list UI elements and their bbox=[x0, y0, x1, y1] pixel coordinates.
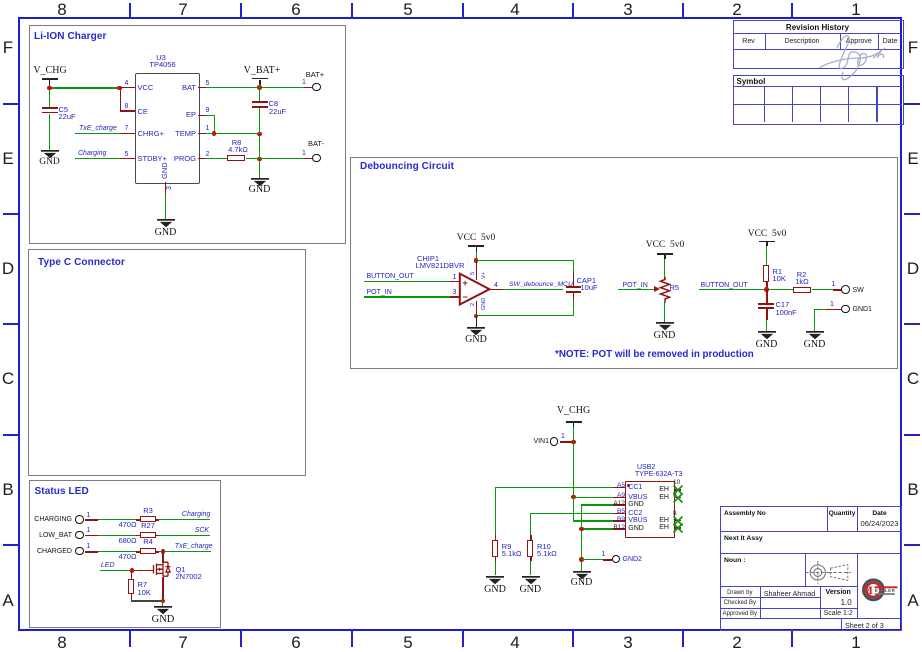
svg-text:M: M bbox=[862, 585, 873, 597]
svg-text:ETTLER: ETTLER bbox=[874, 588, 895, 593]
